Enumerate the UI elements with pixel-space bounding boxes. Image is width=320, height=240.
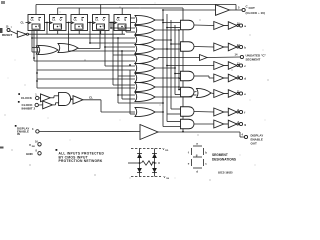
svg-text:V: V xyxy=(164,175,166,179)
svg-text:PROTECTION NETWORK: PROTECTION NETWORK xyxy=(59,159,103,163)
svg-text:CL: CL xyxy=(95,18,99,22)
svg-text:SEGMENT: SEGMENT xyxy=(246,57,261,61)
svg-text:g: g xyxy=(244,123,246,127)
svg-text:GND: GND xyxy=(26,152,34,156)
svg-text:d: d xyxy=(244,77,246,81)
svg-text:DESIGNATIONS: DESIGNATIONS xyxy=(212,157,236,161)
svg-text:SS: SS xyxy=(166,178,169,180)
svg-text:V: V xyxy=(163,147,165,151)
svg-text:3: 3 xyxy=(32,128,34,131)
svg-text:Q: Q xyxy=(38,18,40,22)
svg-text:f: f xyxy=(244,111,245,115)
svg-text:IN: IN xyxy=(17,132,20,136)
svg-text:Q: Q xyxy=(81,24,83,28)
svg-text:*: * xyxy=(11,26,13,30)
svg-text:c: c xyxy=(244,64,246,68)
svg-text:Q: Q xyxy=(60,24,62,28)
svg-text:(CLOCK ÷ 10): (CLOCK ÷ 10) xyxy=(246,11,265,15)
svg-text:CL: CL xyxy=(74,18,78,22)
svg-text:CL: CL xyxy=(52,18,56,22)
svg-text:CL: CL xyxy=(21,21,25,25)
svg-text:a: a xyxy=(196,141,198,145)
svg-text:92CS-19025: 92CS-19025 xyxy=(218,171,233,175)
svg-text:8: 8 xyxy=(36,150,38,153)
svg-text:Q: Q xyxy=(38,24,40,28)
svg-text:V: V xyxy=(29,143,31,147)
svg-text:b: b xyxy=(205,151,207,155)
svg-text:e: e xyxy=(188,162,190,166)
svg-text:DD: DD xyxy=(165,150,169,152)
svg-text:OUT: OUT xyxy=(249,6,256,10)
svg-text:CLOCK: CLOCK xyxy=(21,96,33,100)
svg-text:f: f xyxy=(188,151,189,155)
svg-text:CL: CL xyxy=(31,18,35,22)
svg-text:g: g xyxy=(196,153,198,157)
svg-text:c: c xyxy=(205,162,207,166)
svg-text:RESET: RESET xyxy=(2,33,12,37)
svg-text:14: 14 xyxy=(235,52,238,56)
svg-text:b: b xyxy=(244,46,246,50)
svg-text:CL: CL xyxy=(117,18,121,22)
svg-text:Q: Q xyxy=(81,18,83,22)
svg-text:5: 5 xyxy=(238,6,240,10)
svg-text:INHIBIT 2: INHIBIT 2 xyxy=(22,107,36,111)
svg-text:CL: CL xyxy=(89,96,93,100)
svg-text:d: d xyxy=(196,169,198,173)
svg-text:Q: Q xyxy=(103,24,105,28)
svg-text:a: a xyxy=(244,24,246,28)
svg-text:Q: Q xyxy=(124,24,126,28)
svg-text:e: e xyxy=(244,92,246,96)
svg-text:Q: Q xyxy=(60,18,62,22)
svg-text:DD: DD xyxy=(32,146,36,148)
svg-text:OUT: OUT xyxy=(251,142,258,146)
svg-text:4: 4 xyxy=(242,132,244,136)
svg-text:Q: Q xyxy=(103,18,105,22)
svg-text:Q: Q xyxy=(124,18,126,22)
